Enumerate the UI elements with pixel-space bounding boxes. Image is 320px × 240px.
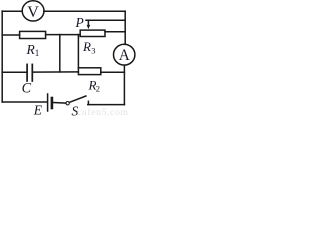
wire capacitor rail left [2,71,26,73]
wiper P arrowhead [87,25,91,29]
wire mid rail left [2,34,19,36]
resistor R1 box [20,31,46,38]
voltmeter V circle [22,1,44,21]
svg-text:1: 1 [35,48,40,58]
svg-text:E: E [33,103,43,118]
svg-text:R: R [82,39,91,54]
capacitor C left plate [26,64,28,81]
battery E long plate [47,94,49,111]
svg-text:P: P [75,15,84,30]
rheostat Rs box [80,30,105,36]
wire battery to switch [53,102,66,105]
capacitor C right plate [31,64,33,81]
wiper P horizontal wire [86,19,125,21]
ammeter A circle [114,44,135,65]
wire rheostat right [105,31,125,33]
svg-text:V: V [27,4,39,21]
svg-text:C: C [22,81,32,97]
svg-text:2: 2 [96,84,100,94]
wire right vertical lower [123,65,125,104]
wire vertical to R2 [77,35,79,68]
switch S contact tick [87,101,89,104]
battery E short plate [51,98,54,108]
wire capacitor rail right [33,71,78,73]
wire junction vertical mid [59,35,61,72]
switch S lever [70,96,86,102]
wire battery rail left [2,101,46,103]
wire left border [1,11,3,102]
wire R2 right [101,71,125,73]
svg-text:cufen5.com: cufen5.com [77,107,129,118]
wire mid rail center [46,34,81,36]
wire bottom right rail [88,104,125,106]
wiper P vertical with arrow [87,20,89,25]
wire right vertical upper [124,11,126,44]
svg-text:A: A [119,47,130,64]
resistor R2 box [78,68,100,75]
wire top rail right [44,10,125,12]
wire top rail left [2,10,22,12]
switch S pivot [66,102,69,105]
svg-text:3: 3 [91,46,95,56]
